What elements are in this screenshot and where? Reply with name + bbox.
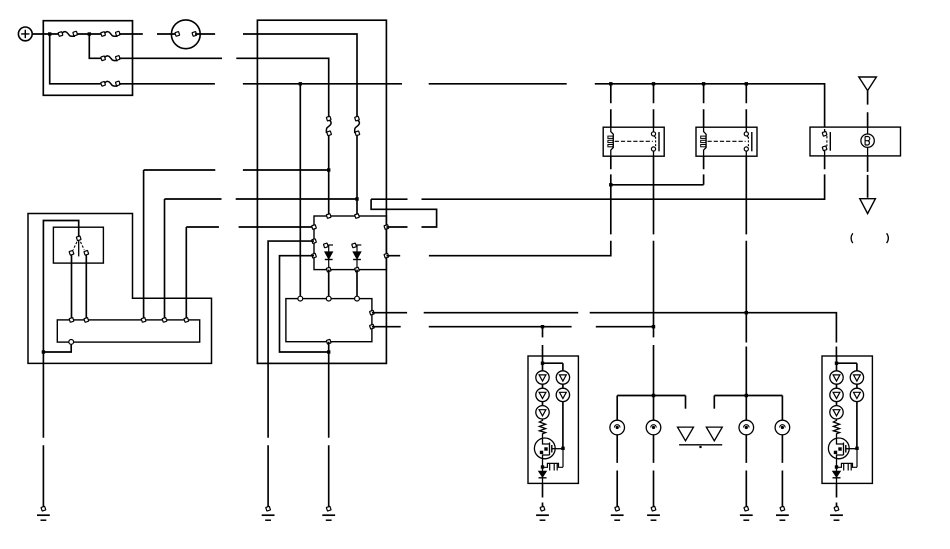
hazard switch pin top — [822, 131, 827, 136]
front turn bulb L1 — [610, 420, 625, 435]
unit pin bottom B — [355, 267, 360, 272]
wire bulb L2 to ground — [653, 435, 655, 507]
wire relay B contact down — [745, 156, 747, 420]
wire switch left to connector — [71, 255, 73, 320]
wire left led feed drop — [542, 327, 544, 356]
wire unit left2 loop down — [268, 241, 314, 506]
switch dashed throws — [73, 242, 84, 250]
wire led unit right to ground — [836, 483, 838, 506]
lower connector box — [286, 299, 372, 342]
ground G9 — [830, 506, 843, 520]
unit pin left 3 — [312, 253, 317, 258]
fusible link coil B — [355, 116, 360, 135]
parenthesis left — [851, 233, 853, 243]
wire unit left3 loop down — [280, 256, 329, 352]
wire hazard switch down — [867, 156, 869, 198]
wire rail to relay B contact — [745, 84, 747, 127]
ground G6 — [647, 506, 660, 520]
fusible link coil A — [326, 116, 331, 135]
connector bar — [679, 444, 722, 446]
hazard switch pin bottom — [822, 146, 827, 151]
fuse 1 — [58, 31, 77, 36]
wire fuse2 to ignition switch — [119, 33, 176, 35]
wire connector ground pin — [43, 344, 71, 352]
wire row y170 — [144, 169, 329, 171]
wire coil B down to unit — [356, 136, 358, 217]
fuse 4 — [101, 81, 120, 86]
connector arrow right — [706, 427, 722, 441]
wire bulb R2 to ground — [781, 435, 783, 507]
wire dot2 down to fuse3 row — [89, 34, 102, 58]
diode D1 — [323, 243, 333, 270]
switch left terminal — [69, 250, 74, 255]
wire unit right2 to relay coils — [386, 156, 610, 256]
relay B — [696, 127, 757, 156]
node power rail tap — [299, 82, 302, 85]
connector pin 5 — [184, 318, 189, 323]
connector pin 3 — [141, 318, 146, 323]
parenthesis right — [887, 233, 889, 243]
connector pin 4 — [162, 318, 167, 323]
wire bulb L1 to ground — [616, 435, 618, 507]
illumination bulb B — [861, 134, 874, 147]
node fuse2 feed junction — [88, 32, 91, 35]
ground G1 — [37, 506, 50, 520]
wire left lamp branch rail — [617, 396, 685, 421]
fuse 3 — [101, 56, 120, 61]
node right feed tap — [745, 311, 748, 314]
wire battery to fuse 1 — [32, 33, 59, 35]
wire right lamp branch rail — [714, 396, 782, 421]
hazard switch box — [810, 127, 901, 156]
lower connector pin b — [326, 296, 331, 301]
connector pin 2 — [84, 318, 89, 323]
node rail tap relay B contact — [745, 82, 748, 85]
central unit box — [314, 216, 386, 270]
led turn signal unit left — [528, 356, 578, 483]
wire rail to relay A contact — [653, 84, 655, 127]
continuation arrow top — [859, 77, 877, 91]
wire bulb R1 to ground — [745, 435, 747, 507]
switch connector box — [57, 320, 199, 342]
ground G2 — [262, 506, 275, 520]
node left lamp feed junction — [652, 325, 655, 328]
wire dot1 down to fuse4 row — [50, 34, 102, 84]
fuse 2 — [101, 31, 120, 36]
node left led feed tap — [541, 325, 544, 328]
wire left marker branch — [685, 396, 687, 409]
wire unit bottoms to connector — [329, 270, 357, 299]
lower connector pin right 1 — [370, 310, 375, 315]
front turn bulb R1 — [739, 420, 754, 435]
combination switch outline — [28, 214, 212, 364]
ground G8 — [776, 506, 789, 520]
wire rail to relay B coil — [703, 84, 705, 127]
lower connector pin right 2 — [370, 324, 375, 329]
unit pin right 1 — [384, 225, 389, 230]
wire rail to relay A coil — [610, 84, 612, 127]
unit pin top B — [355, 214, 360, 219]
unit pin left 1 — [312, 225, 317, 230]
switch common terminal — [76, 236, 81, 241]
switch lever — [78, 240, 80, 256]
node relay coil rail junction — [609, 183, 612, 186]
node rail tap relay A coil — [609, 82, 612, 85]
connector pin 1 — [69, 318, 74, 323]
switch common wire to ground rail — [43, 221, 78, 507]
front turn bulb R2 — [775, 420, 790, 435]
node ground rail junction — [42, 350, 45, 353]
wire fuse4 main rail right — [119, 84, 825, 127]
lower connector pin a — [298, 296, 303, 301]
wire arrow to hazard switch — [867, 91, 869, 128]
integrated control unit outer box — [257, 20, 386, 363]
ground G4 — [536, 506, 549, 520]
wire unit right1 jog — [371, 199, 437, 227]
node battery feed junction — [48, 32, 51, 35]
wire drop x164.5 — [164, 199, 166, 320]
wire power drop x300.3 — [299, 84, 301, 299]
wire switch right to connector — [85, 255, 87, 320]
switch right terminal — [84, 250, 89, 255]
wire row y199 left — [165, 198, 358, 200]
node coil A tap — [327, 168, 330, 171]
wire drop x143.6 — [143, 170, 145, 320]
wire drop x186.3 — [185, 227, 187, 320]
wire ignition out — [195, 34, 357, 118]
node right lamp split — [745, 394, 748, 397]
unit pin top A — [326, 214, 331, 219]
wire fuse1 to fuse2 — [77, 33, 102, 35]
lower connector pin c — [355, 296, 360, 301]
node left lamp split — [652, 394, 655, 397]
unit pin left 2 — [312, 239, 317, 244]
node coil B tap — [355, 197, 358, 200]
turn signal switch box — [53, 227, 103, 263]
battery positive terminal — [18, 27, 32, 41]
front turn bulb L2 — [646, 420, 661, 435]
ignition switch — [171, 20, 200, 49]
ground G7 — [740, 506, 753, 520]
ground G3 — [322, 506, 335, 520]
node rail tap relay B coil — [702, 82, 705, 85]
wire connector right1 to right side — [372, 313, 837, 356]
fuse box — [43, 21, 132, 96]
ground G5 — [611, 506, 624, 520]
node connector ground junction — [327, 350, 330, 353]
led turn signal unit right — [822, 356, 872, 483]
wire relay A contact down — [653, 156, 655, 420]
connector arrow left — [678, 427, 694, 441]
relay A — [603, 127, 664, 156]
continuation arrow bottom — [860, 199, 876, 214]
wire relay B coil link — [611, 156, 704, 185]
wire row y227 left — [186, 226, 314, 228]
wire hazard feed row y199 right — [371, 156, 824, 199]
wire coil A down to unit — [328, 136, 330, 217]
wire right marker branch — [713, 396, 715, 409]
wire connector bottom to ground — [328, 342, 330, 507]
wire fuse3 row right — [119, 58, 329, 117]
connector ground pin terminal — [69, 340, 74, 345]
node rail tap relay A contact — [652, 82, 655, 85]
lower connector pin bottom — [326, 339, 331, 344]
diode D2 — [352, 243, 362, 270]
wire connector right2 to left feed — [372, 326, 654, 328]
wire led unit left to ground — [542, 483, 544, 506]
unit pin right 2 — [384, 253, 389, 258]
connector bar tick — [699, 446, 701, 448]
unit pin bottom A — [326, 267, 331, 272]
